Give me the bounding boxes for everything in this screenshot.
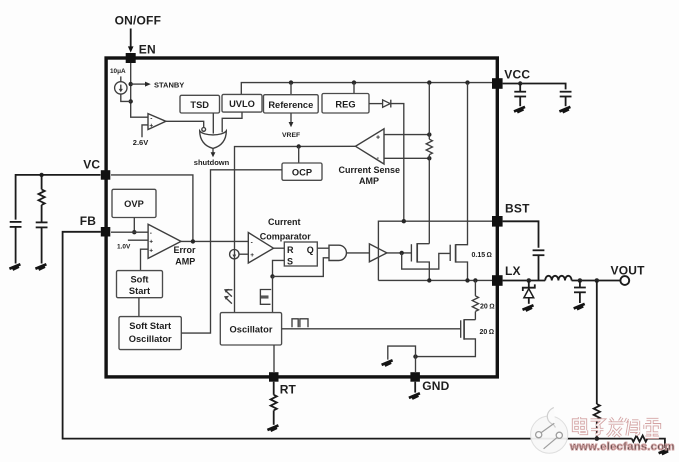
node BST/REG-diode junction bbox=[402, 219, 406, 223]
node rail-FET2-drain bbox=[465, 80, 469, 84]
current source I1 10uA bbox=[115, 76, 131, 101]
wire CSA + input bbox=[384, 134, 429, 136]
svg-text:Soft Start: Soft Start bbox=[129, 321, 171, 331]
resistor R2 feedback lower bbox=[597, 436, 665, 449]
wire CSA output to OCP line bbox=[235, 146, 356, 312]
inverter bubble at OR input bbox=[202, 127, 206, 131]
transistor Q2 high-side FET bbox=[450, 83, 467, 281]
pin FB bbox=[101, 227, 111, 237]
svg-text:0.15 Ω: 0.15 Ω bbox=[472, 252, 492, 259]
svg-text:+: + bbox=[250, 252, 254, 259]
wire: internal VCC rail bbox=[241, 83, 492, 95]
svg-text:2.6V: 2.6V bbox=[133, 138, 148, 147]
ground (C7) bbox=[574, 304, 585, 309]
op-amp U3 Current Sense AMP bbox=[356, 129, 385, 164]
svg-text:R: R bbox=[287, 245, 294, 255]
comparator U5 Current Comparator bbox=[248, 233, 273, 264]
node OCP top junction bbox=[297, 144, 301, 148]
wire pulse line to oscillator bbox=[272, 276, 274, 312]
svg-text:-: - bbox=[251, 239, 253, 246]
svg-text:TSD: TSD bbox=[190, 100, 209, 110]
pin EN bbox=[126, 53, 136, 63]
ground (RT) bbox=[267, 425, 278, 430]
buffer U8 driver bbox=[369, 244, 387, 262]
svg-text:AMP: AMP bbox=[359, 176, 379, 186]
wire oscillator output to NMOS gate bbox=[282, 328, 461, 330]
capacitor C5 (VCC) bbox=[560, 92, 572, 107]
svg-text:OVP: OVP bbox=[124, 199, 144, 209]
ground (VC cap) bbox=[9, 264, 20, 269]
wire ON/OFF arrow bbox=[130, 29, 132, 48]
svg-text:Current Sense: Current Sense bbox=[339, 165, 401, 175]
wire soft start to SS oscillator bbox=[138, 298, 140, 317]
driver supply loop BST-LX bbox=[378, 221, 492, 280]
wire S input from pulse line bbox=[273, 260, 285, 276]
inductor L1 bbox=[545, 276, 571, 281]
VREF arrow bbox=[290, 113, 292, 123]
svg-text:-: - bbox=[150, 230, 152, 237]
pin RT bbox=[269, 372, 279, 382]
IC outline box bbox=[106, 58, 497, 377]
ground (schottky) bbox=[523, 305, 534, 310]
resistor 20ohm (upper) bbox=[472, 280, 478, 319]
svg-text:REG: REG bbox=[335, 100, 355, 110]
wire TSD to OR gate bbox=[212, 113, 214, 134]
wire SS oscillator to OCP bbox=[181, 170, 282, 333]
wire sense bottom to FET1 drain bbox=[428, 158, 430, 243]
ground (VC comp) bbox=[35, 264, 46, 269]
wire 1.0V input bbox=[128, 239, 148, 241]
node rail-REG bbox=[352, 80, 356, 84]
block UVLO bbox=[222, 94, 262, 112]
node VCC cap1 bbox=[518, 81, 522, 85]
pin LX bbox=[492, 275, 503, 286]
wire VCC external bbox=[503, 84, 566, 90]
wire UVLO to OR gate bbox=[222, 112, 242, 132]
svg-text:GND: GND bbox=[422, 379, 449, 393]
wire BST external bbox=[503, 221, 539, 248]
node EN-STANBY junction bbox=[129, 82, 133, 86]
gate U7 AND bbox=[329, 245, 346, 260]
wire buffer out to gates bbox=[387, 252, 412, 254]
capacitor C6 bootstrap bbox=[533, 250, 545, 280]
wire inductor to VOUT bbox=[572, 280, 621, 282]
resistor R4 (RT) bbox=[271, 382, 277, 425]
transistor Q3 low-side NMOS bbox=[416, 319, 476, 356]
wire CSA - input bbox=[384, 157, 429, 159]
ground (C4) bbox=[514, 107, 525, 112]
wire 2.6V to comparator bbox=[142, 125, 148, 137]
svg-text:Current: Current bbox=[268, 217, 301, 227]
svg-text:STANBY: STANBY bbox=[154, 81, 184, 90]
diode D1 after REG bbox=[369, 103, 383, 105]
svg-text:LX: LX bbox=[505, 264, 521, 278]
op-amp U4 Error AMP bbox=[148, 224, 181, 258]
node gate drive split bbox=[400, 251, 404, 255]
svg-text:Oscillator: Oscillator bbox=[129, 334, 172, 344]
svg-text:10μA: 10μA bbox=[110, 68, 126, 75]
block Soft Start Oscillator bbox=[119, 317, 181, 350]
node sense bottom bbox=[427, 156, 431, 160]
pin GND bbox=[410, 372, 420, 382]
sawtooth waveform symbol bbox=[226, 290, 233, 304]
diode D2 schottky bbox=[528, 281, 530, 288]
svg-text:RT: RT bbox=[280, 382, 297, 396]
svg-text:+: + bbox=[149, 238, 153, 245]
block REG bbox=[322, 94, 369, 114]
wire STANBY arrow bbox=[131, 83, 147, 85]
wire to internal ground symbol bbox=[388, 346, 416, 360]
summing node circle on ramp line bbox=[230, 250, 239, 259]
node FET1 source on LX rail bbox=[427, 278, 431, 282]
svg-text:20 Ω: 20 Ω bbox=[480, 329, 495, 336]
block Reference bbox=[264, 95, 319, 113]
wire gate drive to FET2 bbox=[402, 253, 451, 269]
node rail-Reference bbox=[289, 80, 293, 84]
watermark logo circle bbox=[531, 408, 568, 454]
wire OVP to FB line bbox=[133, 218, 135, 233]
svg-text:EN: EN bbox=[139, 42, 156, 56]
svg-text:1.0V: 1.0V bbox=[117, 244, 131, 251]
svg-text:Reference: Reference bbox=[268, 100, 313, 110]
wire comparator to R bbox=[274, 247, 285, 249]
pin VC bbox=[101, 170, 111, 180]
ground (GND pin) bbox=[409, 393, 420, 398]
wire OCP top stub bbox=[298, 147, 300, 164]
block Soft Start bbox=[117, 271, 163, 298]
node OVP-FB junction bbox=[132, 230, 136, 234]
svg-text:-: - bbox=[150, 115, 152, 122]
resistor Rsense bbox=[426, 83, 432, 159]
ground (internal) bbox=[382, 360, 393, 365]
node schottky junction bbox=[527, 278, 532, 283]
wire error amp output bbox=[181, 240, 248, 242]
capacitor C4 (VCC) bbox=[514, 84, 526, 107]
pulse waveform symbol bbox=[260, 290, 271, 305]
latch U6 RS bbox=[284, 242, 317, 266]
wire REG top stub bbox=[353, 83, 355, 94]
svg-text:ON/OFF: ON/OFF bbox=[115, 13, 162, 27]
wire FB feedback line bbox=[63, 232, 595, 439]
wire Reference top stub bbox=[290, 83, 292, 95]
wire pulse junction to AND gate bbox=[273, 258, 330, 277]
svg-text:UVLO: UVLO bbox=[229, 99, 255, 109]
svg-text:www.elecfans.com: www.elecfans.com bbox=[569, 441, 675, 453]
wire Q to AND gate bbox=[317, 247, 329, 249]
svg-text:BST: BST bbox=[505, 202, 530, 216]
block TSD bbox=[180, 95, 220, 113]
wire FB pin to error amp bbox=[111, 231, 148, 233]
svg-text:+: + bbox=[149, 247, 153, 254]
wire comparator out to OR gate bbox=[166, 121, 204, 127]
svg-text:AMP: AMP bbox=[175, 257, 195, 267]
svg-text:20 Ω: 20 Ω bbox=[480, 303, 495, 310]
node NMOS source / GND bbox=[413, 354, 417, 358]
wire summing node to + input bbox=[239, 253, 248, 255]
ground (R2) bbox=[659, 449, 670, 454]
pulse train symbol bbox=[292, 319, 308, 328]
node FET2 source on LX rail bbox=[465, 278, 469, 282]
wire LX internal rail bbox=[378, 279, 492, 281]
node 20ohm resistor junction bbox=[473, 278, 477, 282]
node VC comp branch (external) bbox=[39, 173, 43, 177]
svg-text:Q: Q bbox=[307, 245, 314, 255]
resistor R1 feedback upper bbox=[594, 281, 600, 439]
node pulse junction bbox=[270, 274, 274, 278]
capacitor C2 (VC comp) bbox=[36, 222, 48, 263]
svg-text:shutdown: shutdown bbox=[194, 158, 230, 167]
transistor Q1 high-side FET bbox=[411, 243, 429, 280]
capacitor C1 (VC direct) bbox=[10, 222, 22, 264]
node FB/R1/R2 junction bbox=[595, 436, 600, 441]
svg-text:Error: Error bbox=[174, 245, 197, 255]
node sense top bbox=[427, 132, 431, 136]
block OVP bbox=[112, 189, 156, 217]
pin VCC bbox=[492, 78, 503, 89]
wire GND pin to ground bbox=[414, 382, 416, 393]
shutdown arrow bbox=[212, 148, 214, 153]
pin BST bbox=[492, 216, 503, 227]
svg-text:Comparator: Comparator bbox=[260, 231, 312, 241]
pin VC wire to error-amp output bbox=[111, 175, 193, 242]
resistor R3 (VC comp) bbox=[38, 175, 44, 223]
svg-text:VOUT: VOUT bbox=[611, 263, 646, 277]
svg-text:Oscillator: Oscillator bbox=[230, 325, 273, 335]
wire LX external bbox=[503, 280, 546, 282]
wire VC external bbox=[16, 175, 101, 220]
wire: EN pin down to comparator bbox=[131, 63, 148, 117]
svg-text:Start: Start bbox=[129, 286, 150, 296]
node error-out/VC junction bbox=[191, 239, 195, 243]
block Oscillator bbox=[220, 313, 281, 345]
wire soft-start input bbox=[141, 249, 149, 270]
svg-text:S: S bbox=[287, 256, 293, 266]
svg-text:+: + bbox=[376, 135, 380, 142]
node EN-current-source junction bbox=[129, 99, 133, 103]
svg-text:FB: FB bbox=[80, 214, 97, 228]
ground (C5) bbox=[559, 107, 570, 112]
svg-text:+: + bbox=[149, 123, 153, 130]
node output cap junction bbox=[578, 278, 583, 283]
svg-text:OCP: OCP bbox=[292, 168, 312, 178]
VOUT terminal bbox=[620, 276, 629, 285]
wire NMOS source to GND pin bbox=[415, 357, 417, 372]
svg-text:VC: VC bbox=[83, 158, 100, 172]
wire diode to BST rail bbox=[391, 104, 404, 222]
wire AND to buffer bbox=[347, 252, 370, 254]
node rail-sense-resistor bbox=[427, 80, 431, 84]
block OCP bbox=[282, 163, 322, 180]
comparator U2 (EN threshold) bbox=[148, 114, 166, 130]
OR gate (shutdown logic) bbox=[200, 131, 227, 149]
svg-text:VREF: VREF bbox=[282, 132, 300, 139]
wire oscillator to RT pin bbox=[273, 345, 275, 372]
capacitor C7 output bbox=[574, 281, 586, 304]
node feedback divider top bbox=[595, 278, 600, 283]
svg-text:VCC: VCC bbox=[504, 68, 530, 82]
svg-text:Soft: Soft bbox=[130, 274, 148, 284]
